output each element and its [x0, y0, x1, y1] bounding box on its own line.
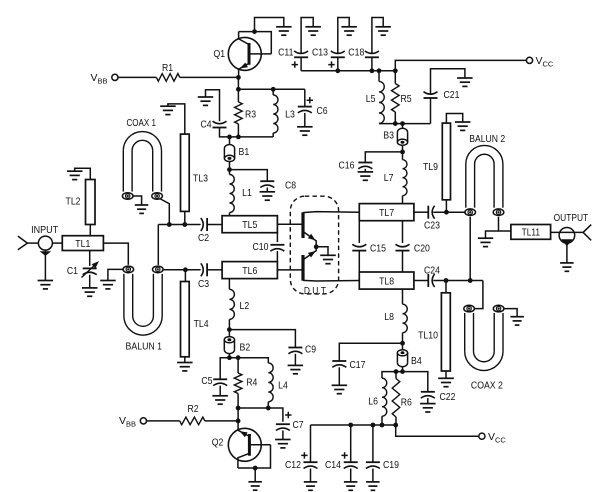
svg-text:L8: L8 — [384, 311, 394, 323]
svg-text:TL5: TL5 — [242, 219, 257, 231]
svg-text:TL6: TL6 — [242, 265, 257, 277]
svg-text:L4: L4 — [278, 380, 288, 392]
svg-text:Q2: Q2 — [212, 436, 224, 448]
svg-text:TL11: TL11 — [522, 228, 541, 239]
svg-text:COAX 1: COAX 1 — [126, 118, 156, 129]
svg-text:INPUT: INPUT — [31, 225, 58, 236]
svg-text:BALUN 1: BALUN 1 — [126, 341, 163, 352]
svg-text:BALUN 2: BALUN 2 — [469, 134, 505, 145]
svg-text:C24: C24 — [424, 265, 440, 277]
svg-text:C2: C2 — [198, 232, 209, 244]
svg-text:L1: L1 — [242, 187, 252, 199]
svg-text:R1: R1 — [162, 62, 173, 74]
svg-text:L3: L3 — [285, 109, 295, 121]
svg-text:C8: C8 — [285, 180, 296, 192]
svg-text:L7: L7 — [384, 172, 394, 184]
svg-text:B4: B4 — [411, 355, 422, 367]
svg-text:C20: C20 — [414, 243, 430, 255]
svg-text:R5: R5 — [401, 93, 412, 105]
svg-text:C21: C21 — [444, 89, 460, 101]
svg-text:C6: C6 — [316, 105, 327, 117]
svg-text:TL8: TL8 — [379, 275, 394, 287]
svg-text:TL9: TL9 — [423, 161, 438, 173]
svg-text:C3: C3 — [198, 278, 209, 290]
svg-text:C1: C1 — [67, 265, 78, 277]
svg-text:R4: R4 — [246, 376, 257, 388]
svg-text:R3: R3 — [245, 109, 256, 121]
svg-text:C17: C17 — [350, 359, 366, 371]
svg-text:C19: C19 — [383, 459, 399, 471]
svg-text:D.U.T.: D.U.T. — [304, 286, 328, 297]
svg-text:C7: C7 — [293, 419, 304, 431]
svg-text:C18: C18 — [348, 47, 364, 59]
svg-text:TL4: TL4 — [194, 318, 209, 330]
svg-text:C5: C5 — [201, 375, 212, 387]
svg-text:C10: C10 — [253, 241, 269, 253]
svg-text:C9: C9 — [305, 343, 316, 355]
svg-text:COAX 2: COAX 2 — [471, 381, 503, 392]
svg-text:R2: R2 — [187, 403, 198, 415]
svg-text:C15: C15 — [370, 243, 386, 255]
svg-text:L6: L6 — [368, 396, 378, 408]
svg-text:TL7: TL7 — [379, 207, 394, 219]
svg-text:OUTPUT: OUTPUT — [554, 213, 589, 224]
svg-text:R6: R6 — [401, 397, 412, 409]
svg-text:L5: L5 — [366, 93, 376, 105]
svg-text:C13: C13 — [312, 47, 328, 59]
svg-text:Q1: Q1 — [214, 48, 226, 60]
svg-text:TL1: TL1 — [75, 238, 90, 250]
svg-text:C11: C11 — [278, 47, 293, 59]
svg-text:C4: C4 — [200, 119, 211, 131]
svg-text:TL10: TL10 — [418, 330, 438, 342]
svg-text:C23: C23 — [424, 219, 440, 231]
svg-text:TL3: TL3 — [193, 173, 208, 185]
svg-text:C14: C14 — [325, 459, 341, 471]
svg-text:C22: C22 — [440, 391, 456, 403]
svg-text:B2: B2 — [240, 341, 251, 353]
svg-text:B1: B1 — [239, 146, 250, 158]
svg-text:TL2: TL2 — [66, 196, 81, 208]
svg-text:C16: C16 — [339, 160, 355, 172]
svg-text:C12: C12 — [285, 459, 301, 471]
svg-text:B3: B3 — [383, 130, 394, 142]
svg-text:L2: L2 — [240, 300, 250, 312]
